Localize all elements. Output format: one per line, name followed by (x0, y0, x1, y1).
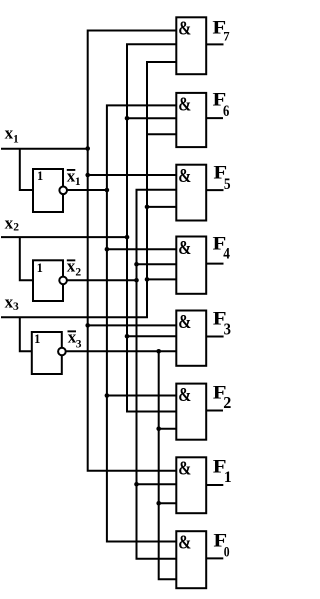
AND gate F2 box (176, 384, 206, 440)
wire F5 input 3 from x3 bus (147, 206, 177, 208)
svg-text:&: & (178, 457, 191, 479)
wire F1 input 2 from x̄2 bus (137, 483, 178, 485)
wire x̄2 vertical bus (F5.in2 to F0.in2) (137, 190, 178, 559)
node junction x̄3-line to x̄3 bus (156, 349, 161, 354)
svg-text:6: 6 (223, 103, 229, 121)
svg-text:&: & (178, 310, 191, 332)
wire x2 vertical bus (F7.in2 to F2.in2) (127, 44, 177, 411)
wire F1 output (206, 484, 223, 486)
wire F7 output (206, 43, 223, 45)
wire x3 branch to inverter U3 (20, 317, 32, 351)
wire x2 branch to inverter U2 (20, 237, 33, 280)
svg-text:2: 2 (13, 222, 19, 234)
wire x̄3 output line to F3 input 3 (66, 350, 177, 352)
AND gate F4 box (176, 237, 206, 294)
node x̄3 (label) (68, 330, 77, 332)
wire F5 input 1 from x1 bus (88, 174, 178, 176)
svg-text:7: 7 (223, 29, 230, 43)
AND gate F0 box (176, 531, 206, 588)
wire x3 input line and x3 bus to F7 (1, 62, 177, 317)
wire F6 input 3 from x3 bus (147, 133, 177, 135)
wire x1 vertical bus (F7.in1 to F1.in1) (88, 31, 178, 471)
svg-text:1: 1 (224, 469, 232, 486)
wire x1 input line (1, 148, 88, 150)
inverter U1 box (33, 169, 63, 212)
AND gate F5 box (176, 165, 206, 221)
svg-text:3: 3 (13, 301, 19, 313)
AND gate F3 box (176, 311, 206, 366)
wire F1 input 3 from x̄3 bus (159, 502, 178, 504)
wire F3 output (206, 336, 223, 338)
node junction x̄2-line to x̄2 bus (134, 278, 139, 283)
wire F4 output (206, 263, 223, 265)
svg-text:&: & (178, 383, 191, 405)
svg-text:1: 1 (37, 261, 43, 275)
wire F0 output (206, 557, 223, 559)
svg-text:1: 1 (37, 169, 43, 183)
node A junction x1-line to x1 bus (85, 146, 90, 151)
wire F6 input 2 from x2 bus (127, 117, 177, 119)
wire x2 input line (1, 236, 127, 238)
svg-text:x: x (5, 213, 14, 232)
inverter U2 output bubble (59, 277, 67, 285)
svg-text:5: 5 (224, 176, 231, 193)
svg-text:&: & (178, 236, 191, 258)
wire F3 input 1 from x1 bus (88, 324, 178, 326)
wire x1 branch to inverter U1 (20, 149, 33, 190)
inverter U3 box (32, 332, 62, 374)
wire x̄2 output line (67, 279, 136, 281)
wire F4 input 3 from x3 bus (147, 278, 177, 280)
inverter U2 box (33, 260, 63, 301)
wire x̄1 vertical bus (F6.in1 to F0.in1) (107, 105, 177, 541)
svg-text:1: 1 (13, 134, 19, 146)
node junction x̄1-line to x̄1 bus (105, 188, 110, 193)
svg-text:&: & (178, 92, 191, 114)
inverter U1 output bubble (59, 187, 67, 195)
svg-text:0: 0 (224, 543, 230, 560)
wire F2 input 3 from x̄3 bus (159, 428, 178, 430)
svg-text:4: 4 (223, 246, 230, 263)
AND gate F1 box (176, 457, 206, 513)
svg-text:&: & (178, 164, 191, 186)
wire F6 output (206, 117, 223, 119)
svg-text:&: & (178, 531, 191, 553)
wire F4 input 2 from x̄2 bus (137, 263, 178, 265)
svg-text:1: 1 (34, 332, 40, 346)
wire F2 input 1 from x̄1 bus (107, 395, 177, 397)
svg-text:1: 1 (75, 176, 81, 188)
node x̄2 (label) (67, 259, 76, 261)
svg-text:&: & (178, 17, 191, 39)
svg-text:3: 3 (224, 321, 231, 339)
node x̄1 (label) (67, 169, 76, 171)
svg-text:2: 2 (223, 393, 231, 412)
node junction x2-line to x2 bus (125, 235, 130, 240)
wire x̄3 vertical bus (to F0.in3) (159, 351, 178, 579)
inverter U3 output bubble (58, 348, 66, 356)
wire x̄1 output line (68, 189, 107, 191)
wire F4 input 1 from x̄1 bus (107, 248, 177, 250)
wire F3 input 2 from x2 bus (127, 335, 177, 337)
AND gate F6 box (176, 93, 206, 147)
svg-text:3: 3 (76, 339, 82, 351)
wire F2 output (206, 410, 223, 412)
wire F5 output (206, 189, 223, 191)
svg-text:2: 2 (75, 267, 81, 279)
AND gate F7 box (176, 17, 206, 74)
